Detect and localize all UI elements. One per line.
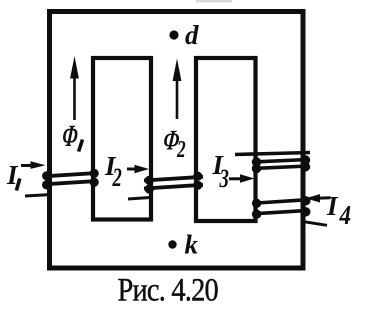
svg-text:I: I: [326, 191, 339, 221]
svg-text:4: 4: [339, 201, 351, 230]
svg-text:3: 3: [219, 164, 229, 193]
svg-text:k: k: [185, 230, 199, 260]
svg-text:2: 2: [176, 135, 185, 163]
svg-text:2: 2: [112, 163, 122, 192]
svg-text:Рис. 4.20: Рис. 4.20: [118, 272, 219, 308]
svg-text:d: d: [185, 20, 199, 50]
